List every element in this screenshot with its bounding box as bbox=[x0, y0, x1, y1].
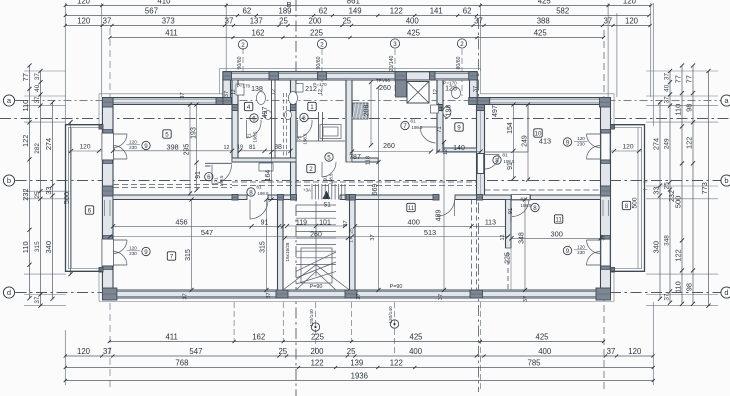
svg-text:189: 189 bbox=[278, 7, 291, 16]
facade line left bbox=[98, 94, 100, 125]
svg-text:260: 260 bbox=[383, 143, 395, 150]
svg-text:200: 200 bbox=[310, 347, 324, 356]
svg-text:120: 120 bbox=[77, 347, 91, 356]
svg-text:16x16/28: 16x16/28 bbox=[285, 242, 290, 261]
top dimension row 2 bbox=[64, 7, 651, 17]
svg-text:425: 425 bbox=[407, 29, 421, 38]
pier bottom-left corner bbox=[102, 288, 117, 300]
svg-text:567: 567 bbox=[145, 7, 158, 16]
svg-text:260: 260 bbox=[310, 232, 322, 239]
svg-text:37: 37 bbox=[663, 73, 670, 81]
extension line bbox=[646, 198, 718, 200]
elevator/vent shaft with X bbox=[407, 82, 429, 104]
svg-text:77: 77 bbox=[684, 75, 693, 83]
svg-text:37: 37 bbox=[474, 17, 483, 26]
room tag 6 bbox=[85, 206, 93, 214]
window axis line bbox=[321, 49, 323, 96]
svg-text:413: 413 bbox=[539, 137, 551, 146]
room tag 9 bbox=[455, 123, 463, 131]
svg-text:77: 77 bbox=[21, 73, 30, 81]
svg-text:110: 110 bbox=[21, 100, 30, 112]
shaft left wall pier bbox=[396, 80, 407, 97]
dim chain room 413 bbox=[513, 105, 515, 179]
svg-text:P=170: P=170 bbox=[313, 82, 327, 87]
grid bubble d left bbox=[3, 287, 14, 298]
facade line protrusion bbox=[220, 67, 481, 69]
svg-text:9: 9 bbox=[566, 248, 570, 255]
svg-text:513: 513 bbox=[424, 228, 436, 237]
door mark 5 bbox=[325, 153, 333, 161]
right wing inner 500 dim bbox=[637, 128, 639, 269]
svg-text:340: 340 bbox=[44, 241, 53, 253]
svg-text:340: 340 bbox=[651, 241, 660, 253]
svg-text:388: 388 bbox=[537, 17, 550, 26]
svg-text:208: 208 bbox=[364, 105, 371, 117]
svg-text:7: 7 bbox=[403, 123, 407, 130]
window 212 bbox=[279, 72, 318, 74]
svg-text:2: 2 bbox=[309, 166, 313, 173]
svg-text:19: 19 bbox=[237, 145, 243, 151]
svg-text:1936: 1936 bbox=[351, 372, 368, 381]
svg-text:P=170: P=170 bbox=[443, 81, 457, 86]
svg-text:37: 37 bbox=[603, 17, 612, 26]
spine wall stair-left bbox=[268, 195, 296, 200]
svg-text:198.5: 198.5 bbox=[303, 133, 308, 145]
svg-text:d: d bbox=[724, 288, 728, 297]
grid bubble b left bbox=[3, 175, 14, 186]
svg-text:37: 37 bbox=[266, 292, 272, 298]
svg-text:8: 8 bbox=[249, 189, 253, 196]
axis B vertical dash-dot bbox=[295, 0, 297, 396]
svg-text:120: 120 bbox=[129, 246, 137, 251]
svg-text:140: 140 bbox=[453, 145, 465, 152]
dashed beam right room bbox=[485, 189, 601, 191]
dim chain room5 vertical bbox=[196, 105, 198, 191]
svg-text:400: 400 bbox=[538, 347, 552, 356]
grid bubble a left bbox=[3, 95, 14, 106]
dim 669 bbox=[378, 87, 380, 290]
secondary horizontal axis y118.5 bbox=[0, 118, 730, 120]
svg-text:230: 230 bbox=[129, 251, 137, 256]
svg-text:547: 547 bbox=[189, 347, 202, 356]
door mark 9 right upper bbox=[563, 138, 571, 146]
svg-text:62: 62 bbox=[463, 7, 472, 16]
ensuite wall stub y164 bbox=[205, 162, 232, 164]
stairwell wall right bbox=[350, 200, 356, 291]
svg-text:25: 25 bbox=[278, 347, 287, 356]
window mark 2 bbox=[457, 39, 466, 48]
door mark 8 wall x476 bbox=[493, 156, 501, 164]
room tag 1 bbox=[308, 102, 316, 110]
dim 315 room7 bbox=[191, 200, 193, 291]
svg-text:1: 1 bbox=[310, 104, 314, 111]
door mark 6b bbox=[300, 113, 308, 121]
dim line y151 left (398) bbox=[113, 150, 232, 152]
svg-text:40: 40 bbox=[34, 84, 41, 92]
svg-text:295: 295 bbox=[183, 144, 190, 156]
hatched pier right wall bbox=[601, 186, 611, 196]
svg-text:+3A: +3A bbox=[303, 188, 311, 193]
svg-text:113: 113 bbox=[485, 220, 496, 227]
svg-text:6: 6 bbox=[88, 207, 92, 214]
washer fixture bbox=[431, 105, 439, 113]
door opening left wall lower bbox=[102, 239, 114, 266]
svg-text:456: 456 bbox=[175, 218, 187, 227]
svg-text:25: 25 bbox=[348, 228, 354, 234]
svg-text:37: 37 bbox=[224, 91, 230, 97]
door jamb bbox=[601, 266, 610, 270]
svg-text:98: 98 bbox=[684, 104, 693, 112]
dim 315 stairhall bbox=[266, 200, 268, 291]
svg-text:315: 315 bbox=[34, 241, 41, 252]
extension line bbox=[646, 185, 718, 187]
door jamb bbox=[601, 130, 610, 134]
svg-text:274: 274 bbox=[44, 138, 53, 150]
exterior wall left bbox=[102, 98, 113, 291]
room tag 2 bbox=[307, 164, 315, 172]
svg-text:122: 122 bbox=[684, 137, 693, 149]
svg-text:282: 282 bbox=[34, 143, 41, 154]
door mark 8b bbox=[531, 203, 539, 211]
svg-text:400: 400 bbox=[408, 218, 420, 227]
svg-text:122: 122 bbox=[311, 359, 324, 368]
svg-text:120/140: 120/140 bbox=[388, 306, 394, 324]
svg-text:500: 500 bbox=[631, 197, 638, 208]
svg-text:P=170: P=170 bbox=[237, 84, 251, 89]
svg-text:9: 9 bbox=[566, 139, 570, 146]
left wing inner 500 dim bbox=[71, 128, 73, 268]
door 8 spine left bbox=[249, 200, 251, 220]
closet line room 413 bbox=[485, 151, 529, 153]
stair lower landing rect bbox=[301, 248, 332, 283]
hatched pier left wall bbox=[102, 186, 113, 196]
svg-text:768: 768 bbox=[175, 359, 188, 368]
svg-text:25: 25 bbox=[342, 17, 351, 26]
survey marker 2 bbox=[390, 320, 398, 328]
svg-text:425: 425 bbox=[534, 29, 548, 38]
right wing dim 120 bbox=[611, 150, 642, 152]
wall y158 mid bbox=[352, 158, 378, 162]
extension line bbox=[646, 95, 718, 97]
svg-text:122: 122 bbox=[673, 249, 682, 261]
axis d horizontal dash-dot bbox=[16, 292, 722, 294]
svg-text:91: 91 bbox=[508, 208, 514, 214]
door 7 corridor right bbox=[420, 126, 437, 128]
svg-text:411: 411 bbox=[165, 29, 177, 38]
extension line right bbox=[652, 3, 654, 126]
svg-text:25: 25 bbox=[663, 182, 670, 190]
svg-text:b: b bbox=[724, 176, 728, 185]
hatched chimney block bbox=[353, 103, 369, 119]
svg-text:91: 91 bbox=[261, 220, 269, 227]
left dim column 3 bbox=[44, 100, 55, 301]
top dimension row 4 bbox=[108, 29, 605, 39]
svg-text:861: 861 bbox=[347, 0, 360, 6]
svg-text:P=90: P=90 bbox=[390, 284, 403, 290]
wing pier bbox=[99, 125, 103, 130]
svg-text:230: 230 bbox=[577, 142, 585, 147]
svg-text:6: 6 bbox=[207, 174, 211, 181]
svg-text:230: 230 bbox=[129, 145, 137, 150]
svg-text:400: 400 bbox=[406, 17, 420, 26]
svg-text:425: 425 bbox=[535, 333, 549, 342]
svg-text:193: 193 bbox=[190, 127, 197, 139]
wall x505 lower bbox=[506, 200, 512, 249]
svg-text:120/140: 120/140 bbox=[309, 309, 315, 327]
svg-text:37: 37 bbox=[607, 347, 616, 356]
protrusion front wall bbox=[223, 72, 477, 80]
svg-text:119: 119 bbox=[296, 220, 307, 227]
dashed beam corridor 2 bbox=[232, 185, 477, 187]
vertical axis x=478 bbox=[478, 18, 480, 392]
svg-text:225: 225 bbox=[504, 252, 511, 264]
svg-text:9: 9 bbox=[144, 249, 148, 256]
room tag 10 bbox=[534, 129, 542, 137]
door jamb bbox=[103, 160, 113, 164]
window top-left band bbox=[113, 98, 216, 100]
door 6 bathroom left bbox=[246, 120, 248, 138]
svg-text:497: 497 bbox=[262, 107, 269, 119]
bottom dimension row 3 bbox=[64, 359, 655, 369]
top dimension row 3 bbox=[64, 17, 652, 27]
partition x272 bathroom bbox=[271, 80, 273, 158]
svg-text:249: 249 bbox=[521, 135, 528, 147]
extension line bbox=[24, 95, 66, 97]
pier at protrusion left bbox=[216, 98, 231, 105]
bottom dimension row 2 bbox=[64, 347, 655, 357]
svg-text:212: 212 bbox=[305, 86, 317, 93]
partition x320 tub niche bbox=[318, 112, 320, 141]
dashed beam left room bbox=[113, 184, 232, 186]
svg-text:787: 787 bbox=[349, 154, 361, 161]
svg-text:77: 77 bbox=[673, 75, 682, 83]
wing joint line bbox=[64, 190, 70, 192]
stairwell wall left bbox=[278, 200, 284, 291]
pier top-right corner bbox=[600, 98, 611, 108]
svg-text:5: 5 bbox=[165, 131, 169, 138]
room tag 5 bbox=[163, 130, 171, 138]
svg-text:62: 62 bbox=[319, 7, 328, 16]
door mark 8 bbox=[247, 188, 255, 196]
door leafs left lower bbox=[113, 239, 127, 241]
svg-text:348: 348 bbox=[518, 232, 525, 244]
svg-text:5: 5 bbox=[327, 154, 331, 161]
pier top-left corner bbox=[102, 98, 113, 108]
svg-text:139: 139 bbox=[350, 359, 363, 368]
extension line left bbox=[64, 3, 66, 126]
dim 164 bbox=[271, 152, 273, 200]
window 260 bbox=[327, 72, 396, 74]
svg-text:37: 37 bbox=[523, 296, 529, 302]
svg-text:122: 122 bbox=[21, 135, 30, 147]
svg-text:120: 120 bbox=[622, 144, 633, 151]
svg-text:117: 117 bbox=[438, 103, 444, 112]
pier bottom-right corner bbox=[596, 288, 611, 300]
svg-text:9: 9 bbox=[144, 143, 148, 150]
svg-text:S1: S1 bbox=[323, 203, 331, 209]
right dim column 1 bbox=[651, 100, 662, 301]
svg-text:120: 120 bbox=[79, 144, 90, 151]
dashed beam x=473 lower bbox=[471, 200, 473, 291]
room tag 7 bbox=[167, 252, 175, 260]
svg-text:120: 120 bbox=[625, 17, 639, 26]
wing pier bbox=[99, 268, 103, 273]
ensuite door bbox=[211, 165, 213, 185]
wall x476 bbox=[477, 105, 485, 196]
bathroom wall y158 bbox=[232, 158, 296, 162]
svg-text:425: 425 bbox=[538, 0, 552, 6]
svg-text:120: 120 bbox=[623, 0, 637, 6]
svg-text:348: 348 bbox=[663, 235, 670, 246]
door jamb bbox=[601, 236, 610, 240]
svg-text:11: 11 bbox=[408, 205, 415, 212]
extension line bbox=[351, 302, 353, 342]
bathroom fixtures bbox=[236, 84, 461, 172]
corridor dim 260/140 right bbox=[352, 151, 431, 153]
svg-text:225: 225 bbox=[310, 29, 324, 38]
svg-text:128: 128 bbox=[445, 86, 457, 93]
svg-text:400: 400 bbox=[409, 347, 423, 356]
svg-text:12: 12 bbox=[224, 145, 230, 151]
svg-text:120: 120 bbox=[129, 140, 137, 145]
svg-text:81: 81 bbox=[502, 153, 508, 159]
left wing terrace outline bbox=[66, 125, 103, 272]
door 8b opening in spine wall x511-530 bbox=[512, 195, 531, 201]
exterior wall bottom bbox=[102, 290, 610, 298]
door opening left wall upper bbox=[102, 133, 114, 160]
svg-text:162: 162 bbox=[252, 333, 265, 342]
svg-text:37: 37 bbox=[103, 347, 112, 356]
dashed wall continuation bbox=[507, 252, 509, 290]
svg-text:37: 37 bbox=[601, 234, 607, 240]
svg-text:25: 25 bbox=[279, 17, 288, 26]
svg-text:773: 773 bbox=[700, 182, 709, 194]
door mark 9 right lower bbox=[563, 246, 571, 254]
door P=90 stair exit bbox=[288, 291, 345, 293]
svg-text:497: 497 bbox=[492, 105, 499, 117]
extension line bbox=[646, 105, 718, 107]
left wing dim 120 bbox=[68, 150, 102, 152]
svg-text:120: 120 bbox=[77, 0, 91, 6]
facade line bottom bbox=[99, 301, 614, 303]
spine wall right segment bbox=[455, 195, 601, 200]
svg-text:61: 61 bbox=[410, 119, 416, 125]
svg-text:37: 37 bbox=[180, 92, 186, 98]
svg-text:198.5: 198.5 bbox=[253, 131, 258, 143]
svg-text:98: 98 bbox=[684, 283, 693, 291]
bottom dimension row 1 bbox=[108, 333, 605, 343]
svg-text:120: 120 bbox=[628, 347, 642, 356]
protrusion right side wall bbox=[470, 72, 478, 105]
window axis line bbox=[461, 49, 463, 96]
door jamb bbox=[103, 266, 113, 270]
door mark 9 left upper bbox=[142, 141, 150, 149]
grid bubble d right bbox=[721, 287, 730, 298]
svg-text:249: 249 bbox=[663, 138, 670, 149]
top dimension row 1 bbox=[64, 0, 653, 7]
svg-text:232: 232 bbox=[21, 188, 30, 200]
svg-text:110: 110 bbox=[673, 281, 682, 293]
svg-text:40: 40 bbox=[663, 84, 670, 92]
svg-text:500: 500 bbox=[62, 192, 71, 204]
svg-text:200: 200 bbox=[308, 17, 322, 26]
window 138 bbox=[232, 72, 269, 74]
svg-text:137: 137 bbox=[250, 17, 263, 26]
pier bbox=[470, 290, 483, 298]
svg-text:37: 37 bbox=[34, 96, 41, 104]
exterior wall top-left segment bbox=[102, 98, 222, 105]
svg-text:37: 37 bbox=[663, 96, 670, 104]
wall y148 right bbox=[443, 148, 477, 152]
svg-text:b: b bbox=[7, 176, 11, 185]
spine wall mid-right bbox=[340, 195, 437, 200]
extension line bbox=[646, 70, 718, 72]
svg-text:547: 547 bbox=[201, 228, 213, 237]
window bottom band bbox=[357, 291, 470, 293]
window bottom-left band bbox=[117, 291, 276, 293]
room tag 8 right wing bbox=[622, 201, 630, 209]
svg-text:425: 425 bbox=[409, 333, 423, 342]
window 128 bbox=[435, 72, 469, 74]
extension line bbox=[646, 273, 718, 275]
svg-text:411: 411 bbox=[165, 333, 177, 342]
svg-text:81: 81 bbox=[249, 145, 256, 151]
wing pier bbox=[611, 268, 615, 273]
svg-text:3: 3 bbox=[393, 41, 397, 48]
extension line bbox=[24, 305, 66, 307]
svg-text:232: 232 bbox=[669, 190, 676, 202]
svg-text:17: 17 bbox=[348, 237, 354, 243]
room tag T bbox=[554, 215, 562, 223]
left dim column 1 bbox=[21, 63, 32, 300]
door opening spine wall x437-455 bbox=[438, 200, 455, 216]
wing pier bbox=[611, 125, 615, 130]
svg-text:315: 315 bbox=[185, 249, 192, 261]
svg-text:410: 410 bbox=[157, 0, 171, 6]
extension line bbox=[282, 302, 284, 342]
door 5 corridor bbox=[321, 162, 323, 177]
wall x290 (axis B) bbox=[291, 80, 297, 195]
svg-text:164: 164 bbox=[265, 170, 272, 182]
svg-text:162: 162 bbox=[251, 29, 264, 38]
wing joint line right bbox=[643, 181, 648, 183]
svg-text:582: 582 bbox=[556, 7, 569, 16]
pier at stairwell left bbox=[276, 290, 288, 298]
pier bbox=[430, 72, 436, 80]
svg-text:225: 225 bbox=[311, 333, 325, 342]
pier below corner L bbox=[223, 98, 232, 105]
svg-text:37: 37 bbox=[663, 293, 670, 301]
pier bbox=[269, 72, 279, 80]
svg-text:90/60: 90/60 bbox=[237, 56, 243, 69]
right dim column 2 bbox=[663, 69, 672, 305]
svg-text:91: 91 bbox=[195, 171, 202, 179]
svg-text:37: 37 bbox=[183, 293, 189, 299]
svg-text:d: d bbox=[7, 288, 11, 297]
svg-text:81: 81 bbox=[256, 185, 262, 191]
svg-text:33: 33 bbox=[44, 186, 53, 194]
svg-text:25: 25 bbox=[347, 347, 356, 356]
svg-text:37: 37 bbox=[473, 86, 479, 92]
svg-text:37: 37 bbox=[343, 220, 349, 226]
svg-text:373: 373 bbox=[162, 17, 175, 26]
corridor small dims 12 81 88 bbox=[238, 150, 291, 152]
svg-text:37: 37 bbox=[370, 234, 376, 240]
stair direction arrow S1 bbox=[323, 191, 331, 200]
spine wall left segment bbox=[113, 195, 247, 200]
extension line bbox=[24, 273, 66, 275]
extension line bbox=[24, 70, 66, 72]
